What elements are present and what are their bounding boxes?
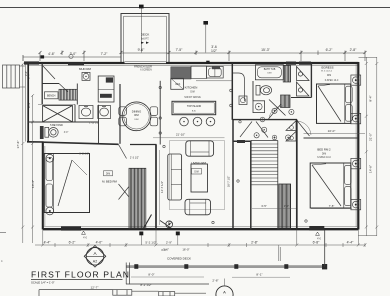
closet bifold doors [291,63,311,98]
svg-text:COVERED DECK: COVERED DECK [167,256,191,260]
svg-text:3'-0": 3'-0" [70,52,78,56]
svg-text:DIM: DIM [106,174,110,176]
bath door leaf [269,100,286,116]
svg-text:DIM: DIM [84,73,88,75]
island stools [180,117,215,126]
nightstand 1b [351,113,361,123]
svg-text:BED RM 2: BED RM 2 [317,147,331,151]
svg-text:LIVING RM: LIVING RM [191,161,206,165]
deck lower edge [126,283,209,285]
svg-text:9'-6": 9'-6" [138,48,146,52]
refrigerator [171,78,184,89]
window label mud rm [68,62,84,65]
svg-text:TOP ISLAND: TOP ISLAND [187,105,201,108]
svg-text:W-16 1/2": W-16 1/2" [79,154,89,156]
svg-text:BATH TUB: BATH TUB [264,68,276,71]
bath door swing [268,104,281,120]
deck (top bump-out) [121,14,169,63]
bath counter curve [233,73,244,101]
bottom next-sheet fragment [39,290,206,296]
svg-text:A2: A2 [93,259,97,263]
svg-text:2'-8": 2'-8" [212,278,218,282]
svg-text:12'-7": 12'-7" [91,285,99,289]
svg-text:EGRESS: EGRESS [321,65,333,69]
svg-text:2'-8": 2'-8" [350,48,358,52]
svg-text:REF.: REF. [176,84,181,86]
svg-text:BENCH: BENCH [47,94,56,97]
svg-text:2'-10 1/2": 2'-10 1/2" [89,123,99,125]
bench box [45,92,59,99]
entry steps outside left wall [3,65,26,88]
svg-text:SOFFIT ABOVE: SOFFIT ABOVE [184,96,201,99]
svg-text:15'-3": 15'-3" [261,48,270,52]
svg-text:4'-4": 4'-4" [347,241,355,245]
top dimension line [121,52,365,54]
border line top [0,7,390,9]
top dimension texts [48,45,357,56]
deck centerline extension [140,8,142,53]
svg-text:6'-2": 6'-2" [326,48,334,52]
hall ceiling light circles [254,108,294,140]
wall: hall west [155,145,157,230]
master labels [104,171,113,176]
svg-text:16'-0": 16'-0" [182,248,189,252]
sofa [168,154,182,200]
svg-text:3'-5": 3'-5" [261,204,267,208]
hall door swings [240,117,277,140]
armchair top [186,141,214,156]
stair treads [251,144,278,185]
svg-text:B.B.: B.B. [192,110,197,112]
wall: living east / hall [232,120,234,230]
right dimension lines [359,57,379,236]
wall: left exterior upper [27,62,29,143]
lamp b [46,207,54,215]
centerline symbol [69,54,73,58]
BOTTOM DIMENSIONS [35,230,367,261]
wall: between bedrooms [304,137,359,139]
svg-text:16'-7 1/2": 16'-7 1/2" [226,176,230,187]
soffit line [196,80,232,82]
svg-text:DIM: DIM [190,92,194,94]
vanity sink 2 [98,106,111,119]
svg-text:4'-0: 4'-0 [83,238,87,240]
door blob left [40,126,44,139]
pantry boxes [98,76,114,102]
wall: bath west [231,63,233,120]
svg-text:5 BEYOND: 5 BEYOND [50,124,63,127]
wall: right exterior [357,62,359,230]
wall: dining/living divider [159,81,161,145]
hall rotated dim [159,150,161,225]
dining chairs [119,107,158,126]
egress marker right [316,232,320,235]
svg-text:2'-8": 2'-8" [251,241,259,245]
wall outlets kitchen east [230,89,233,92]
wall: stair west [250,141,252,230]
ext line squares below wall [139,232,143,236]
svg-text:A: A [223,290,226,295]
svg-text:7'-5": 7'-5" [329,204,335,208]
deck sliding door (thin lines in wall opening) [125,61,167,63]
svg-text:6-SPEC 10-0: 6-SPEC 10-0 [325,80,339,82]
bed 1 [317,84,353,123]
lamp a [46,154,54,162]
bedrm2 door swing [297,121,310,137]
svg-text:14'-6": 14'-6" [369,165,373,173]
svg-text:5'-2 1/2": 5'-2 1/2" [145,241,156,245]
kitchen sink [207,66,224,78]
svg-text:21'-0": 21'-0" [369,133,373,141]
door leaf m.bed [144,215,152,229]
svg-text:8'-4": 8'-4" [369,95,373,101]
svg-text:W 4'-0x4'-6: W 4'-0x4'-6 [321,71,333,73]
svg-text:7'-2": 7'-2" [101,52,109,56]
svg-text:8'-1": 8'-1" [256,273,262,277]
svg-text:6'-2": 6'-2" [69,241,77,245]
egress window label left [61,226,81,230]
hatched shower box (X box) [38,104,75,122]
svg-text:2'-9": 2'-9" [166,241,172,245]
left rotated dim texts [16,73,35,188]
wall: bath/hall south [232,119,297,121]
svg-text:4'-0: 4'-0 [317,239,321,241]
wall: living/stair header [233,140,251,142]
svg-text:6-SPEC 10-0: 6-SPEC 10-0 [317,157,331,159]
wall: left exterior lower [42,142,44,230]
svg-text:17'-6": 17'-6" [16,141,20,149]
svg-text:8'-0": 8'-0" [148,272,154,276]
linen hatch [283,65,290,82]
closet hatch (mud rm) [59,89,77,100]
toilet (powder) [45,127,58,137]
svg-text:FIRST FLOOR PLAN: FIRST FLOOR PLAN [31,270,130,280]
bottom marker circle [216,286,233,296]
svg-text:A: A [93,251,97,256]
svg-text:3'-0": 3'-0" [64,132,69,134]
closet door chevrons [119,184,130,197]
column post [166,221,173,228]
svg-text:1/2": 1/2" [211,49,218,53]
wall: closet/bedrm1 [310,63,312,98]
svg-text:KITCHEN: KITCHEN [185,86,198,90]
armchair bottom [185,199,211,215]
svg-text:4'-0": 4'-0" [96,241,104,245]
wall: mud rm east [41,63,43,105]
nightstand 1a [351,75,361,85]
hall closet bifolds [286,121,296,131]
svg-text:7'-5": 7'-5" [176,48,184,52]
svg-text:FRENCH SLDR: FRENCH SLDR [134,65,152,68]
wall: mud rm closet [42,83,59,85]
deck posts [134,264,138,269]
kitchen window center tick [206,61,209,64]
bed 2 [310,163,351,208]
nightstand 2a [351,158,361,168]
coffee table [191,164,208,192]
toilet (bath) [256,85,272,95]
bath vanity [253,101,265,113]
door leaf hall [160,221,170,228]
section marker A/A2 [84,246,106,268]
svg-text:6x6 P.T.: 6x6 P.T. [141,38,150,41]
svg-text:4'-4": 4'-4" [44,241,52,245]
svg-text:3'-7": 3'-7" [27,73,31,79]
MUD ROOM [42,63,77,105]
deck left edge [125,263,127,285]
window label top-left [24,61,39,64]
svg-text:14'-7 1/2": 14'-7 1/2" [160,181,164,193]
bath tub [255,65,283,80]
svg-text:M. BED RM: M. BED RM [102,179,117,183]
svg-text:MUD RM: MUD RM [79,67,91,71]
deck right edge up to house [324,230,326,267]
kitchen window extension line [205,23,207,53]
closet hatch (master) [129,168,146,228]
wall: bottom exterior [43,228,359,230]
vanity sink 1 [79,106,93,119]
BATH (top center) [232,63,297,120]
BED RM 1 (top right) [286,62,296,65]
svg-text:10'-0": 10'-0" [328,129,336,133]
svg-text:DINING: DINING [132,110,141,114]
nightstand 2b [351,199,361,209]
MAIN EXTERIOR WALLS [25,62,358,230]
svg-text:4'-6": 4'-6" [48,52,56,56]
counter / range block [171,67,191,79]
svg-text:1'-0": 1'-0" [284,204,289,208]
svg-text:2'-3 1/2": 2'-3 1/2" [130,157,139,160]
kitchen island [172,101,216,114]
right rotated dim texts [369,95,373,173]
washer (circle in square) [82,72,90,80]
svg-text:14'-4": 14'-4" [31,180,35,188]
STAIRS [251,141,278,230]
dining table [122,102,151,131]
svg-text:21'-10": 21'-10" [176,132,185,136]
svg-text:DIM: DIM [134,119,138,121]
egress window label right [309,226,324,230]
svg-text:4: 4 [1,259,3,263]
left margin tick [0,231,6,233]
powder rm walls [28,84,120,144]
svg-text:SCALE 1/4" = 1'-0": SCALE 1/4" = 1'-0" [31,281,55,285]
wall: left jog [27,141,44,143]
small vert pair [278,247,280,261]
svg-text:6'-8": 6'-8" [313,241,321,245]
linen hatch lower [281,95,291,108]
left dimension lines [21,63,34,244]
svg-text:DIM: DIM [267,73,271,75]
wall: bedrm2 west [296,120,298,230]
bottom dim texts [44,241,355,252]
svg-text:6'-4": 6'-4" [27,102,31,108]
bed master [44,154,89,213]
egress marker left [82,231,86,234]
deck edge lines [126,264,327,266]
second tier dim line left [23,56,121,58]
svg-text:8'-2 1/2": 8'-2 1/2" [140,283,151,287]
bath sink box [239,96,247,105]
outlet circles [159,86,307,223]
svg-text:6 SCREEN: 6 SCREEN [140,70,152,72]
wall: top exterior [28,62,359,64]
svg-text:3'-0": 3'-0" [161,248,167,252]
svg-text:DIM: DIM [194,172,198,174]
rug outline [170,141,225,210]
entry door swing [43,66,55,79]
under-stair hatch [279,184,291,229]
wall: bath interior [252,81,254,101]
svg-text:DIM: DIM [322,153,326,155]
svg-text:DIM: DIM [327,75,331,77]
svg-text:RM: RM [134,113,139,117]
svg-text:DECK: DECK [141,33,151,37]
m.bed door swing [119,145,127,159]
wall: m.bed top [43,142,119,144]
